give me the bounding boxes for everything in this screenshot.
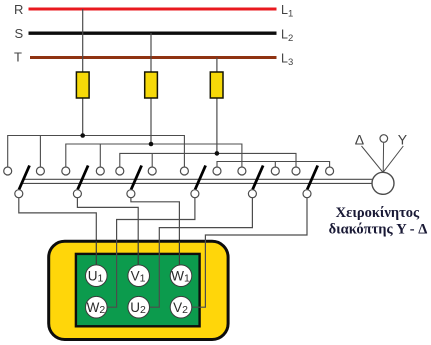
contact pole1 right	[36, 167, 44, 175]
svg-text:L3: L3	[281, 52, 293, 69]
blade pole4	[195, 166, 206, 190]
svg-text:Δ: Δ	[355, 132, 364, 148]
wire pivot4 to W2	[106, 198, 195, 308]
blade pole5	[253, 166, 264, 190]
contact pole5 left	[238, 167, 246, 175]
blade pole2	[78, 166, 89, 190]
contact pole2 right	[96, 167, 104, 175]
terminal V2	[170, 296, 192, 318]
selector fan lines	[362, 143, 404, 173]
terminal U2	[128, 296, 150, 318]
pivot pole2	[73, 190, 81, 198]
wire U1 drop inside box	[95, 241, 97, 266]
contact pole4 left	[180, 167, 188, 175]
terminal U1	[86, 265, 108, 287]
contact pole2 left	[62, 167, 70, 175]
contact pole6 left	[292, 167, 300, 175]
contact pole3 left	[116, 167, 124, 175]
junction dot bus3/fuse3	[215, 151, 220, 156]
pivot pole4	[191, 190, 199, 198]
terminal W2	[86, 296, 108, 318]
wire phase S (L2)	[29, 32, 277, 35]
svg-text:διακόπτης Y - Δ: διακόπτης Y - Δ	[329, 222, 428, 238]
svg-text:L1: L1	[281, 3, 293, 20]
blade pole1	[19, 166, 30, 190]
pivot pole5	[248, 190, 256, 198]
wire pivot1 to U1	[19, 198, 97, 266]
svg-text:L2: L2	[281, 28, 293, 45]
wire W1 drop inside box	[178, 241, 180, 266]
fuse F3	[210, 72, 223, 98]
wire phase T (L3)	[30, 56, 277, 59]
coupling bar (double line)	[23, 179, 372, 183]
wire phase R (L1)	[29, 8, 277, 11]
pivot pole3	[127, 190, 135, 198]
contact pole5 right	[271, 167, 279, 175]
terminal W1	[170, 265, 192, 287]
selector position circle	[380, 135, 388, 143]
selector knob	[372, 172, 394, 194]
pivot pole1	[15, 190, 23, 198]
junction dot bus2/fuse2	[149, 142, 154, 147]
contact pole1 left	[4, 167, 12, 175]
terminal board (green)	[76, 254, 200, 326]
fuse F2	[145, 72, 158, 98]
svg-text:S: S	[15, 26, 24, 41]
junction dot bus1/fuse1	[80, 133, 85, 138]
contact pole6 right	[326, 167, 334, 175]
wire bus 2 (phase S to pole contacts)	[66, 144, 242, 167]
terminal V1	[128, 265, 150, 287]
pivot pole6	[303, 190, 311, 198]
wire fuse drop 2	[150, 33, 152, 144]
wire pivot6 to V2	[191, 198, 307, 308]
svg-text:Χειροκίνητος: Χειροκίνητος	[336, 205, 420, 221]
blade pole6	[307, 166, 318, 190]
fuse F1	[76, 72, 89, 98]
svg-text:R: R	[14, 2, 23, 17]
svg-text:Y: Y	[398, 132, 408, 148]
svg-text:T: T	[14, 50, 22, 65]
wire V1 drop inside box	[137, 241, 139, 266]
wire bus 3 (phase T to pole contacts)	[120, 153, 296, 167]
motor terminal box	[49, 241, 228, 339]
contact pole3 right	[148, 167, 156, 175]
blade pole3	[131, 166, 142, 190]
wire pivot5 to U2	[148, 198, 252, 308]
wire pivot3 to W1	[131, 198, 180, 266]
wire star bridge (common link of right contacts poles 4-6)	[217, 162, 330, 168]
wire fuse drop 3	[216, 58, 218, 154]
contact pole4 right	[213, 167, 221, 175]
wire pivot2 to V1	[77, 198, 138, 266]
wire fuse drop 1	[82, 9, 84, 136]
wire bus 1 (phase R to pole contacts)	[8, 136, 185, 168]
